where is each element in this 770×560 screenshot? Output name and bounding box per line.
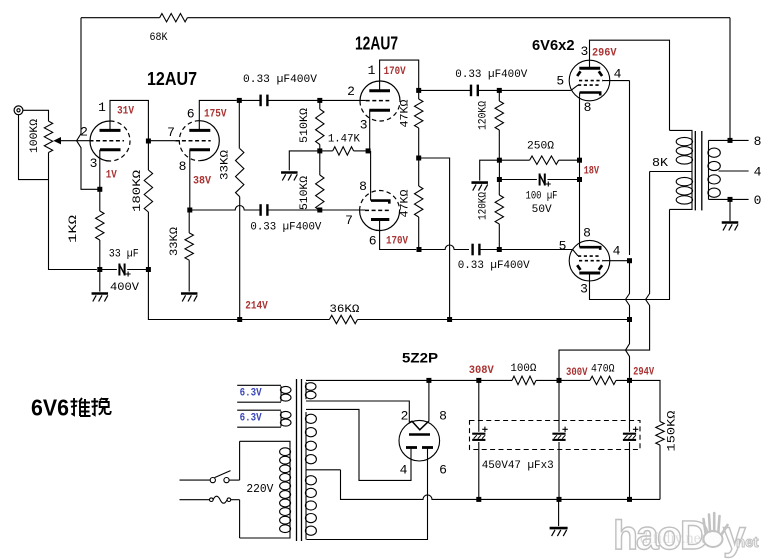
tube V1b 12AU7 envelope (half) <box>199 121 219 161</box>
wire V3 cathode down <box>579 93 581 97</box>
svg-text:4: 4 <box>754 165 762 180</box>
resistor 33K (V1b cathode) <box>188 210 190 233</box>
svg-text:8: 8 <box>583 226 591 241</box>
wire node A to V1b grid <box>148 140 175 142</box>
resistor 250ohm cathode bias <box>499 159 529 161</box>
PT HV center tap lead <box>306 469 341 471</box>
V3 screen grid (dashed) <box>579 80 603 82</box>
capacitor filter C3 450V47uF <box>623 433 636 435</box>
svg-text:470Ω: 470Ω <box>591 364 615 376</box>
svg-text:12AU7: 12AU7 <box>147 69 197 89</box>
junction 510K midpoint <box>317 148 322 153</box>
svg-text:170V: 170V <box>384 66 406 78</box>
svg-text:120KΩ: 120KΩ <box>478 192 490 220</box>
input jack J1 <box>14 106 23 115</box>
OPT primary center tap lead <box>650 171 692 173</box>
tube V5 5Z2P envelope <box>399 420 440 461</box>
V1b grid (dashed) <box>175 140 210 142</box>
tube V4 6V6 envelope <box>569 240 610 281</box>
wire to splitter upper grid <box>320 99 366 101</box>
junction node A (V1a plate / V1b grid / 180K) <box>146 139 151 144</box>
wire V2b cathode up to 1.47K junction <box>370 151 372 201</box>
resistor 1K (V1a cathode) <box>99 189 101 211</box>
resistor 150K bleeder <box>656 422 664 446</box>
wire cap3 drop <box>629 380 631 431</box>
capacitor 33uF 400V decoupling <box>100 269 117 271</box>
V2a grid (dashed) <box>366 100 390 102</box>
junction 510K lower <box>317 208 322 213</box>
tube V2a 12AU7 envelope (half) <box>360 81 400 101</box>
wire cap2 drop <box>558 380 560 431</box>
tube V1a 12AU7 envelope (half) <box>90 121 110 161</box>
junction 294V node <box>627 378 632 383</box>
PT HV secondary upper <box>305 412 307 466</box>
resistor 510K upper grid leak <box>319 100 321 109</box>
junction 300V node <box>557 378 562 383</box>
svg-text:33KΩ: 33KΩ <box>169 227 181 256</box>
ground PSU main <box>550 527 568 530</box>
wire 47K midpoint to 214V rail <box>419 158 450 320</box>
potentiometer 100K <box>44 121 52 152</box>
wire negative ground rail (hop over rectifier plate lead) <box>341 470 661 500</box>
V4 screen grid (dashed) <box>579 260 603 262</box>
junction 120K mid upper (ground/250ohm) <box>497 158 502 163</box>
svg-text:8: 8 <box>754 134 762 149</box>
junction V1b plate / 33K / coupling cap <box>237 98 242 103</box>
wire pot bottom to ground node <box>49 153 97 270</box>
V3 beam plates <box>577 71 580 76</box>
wire V2b plate node to cap D (hop over 47K feed) <box>419 245 469 249</box>
svg-text:1.47K: 1.47K <box>328 134 360 146</box>
junction V4 screen on screens line <box>627 258 632 263</box>
svg-text:12AU7: 12AU7 <box>355 34 398 54</box>
PT rectifier heater winding <box>305 382 307 399</box>
wire screens line (294V feed) with hops <box>626 81 630 378</box>
svg-text:31V: 31V <box>117 106 134 118</box>
resistor 33K (V1b plate load) <box>238 100 240 148</box>
ground under 33K <box>181 292 198 295</box>
svg-text:36KΩ: 36KΩ <box>329 304 359 316</box>
svg-text:47KΩ: 47KΩ <box>400 189 412 217</box>
svg-text:8: 8 <box>584 100 592 115</box>
OPT secondary winding <box>708 140 710 146</box>
wire V4 plate to OPT primary bottom <box>590 209 670 299</box>
wire cap1 drop <box>478 380 480 431</box>
V1b cathode <box>190 148 211 151</box>
capacitor filter C2 450V47uF <box>552 433 565 435</box>
wire V2a plate node to cap C <box>419 89 471 91</box>
V5 plate left (pin 4) <box>406 446 417 449</box>
svg-text:120KΩ: 120KΩ <box>478 101 490 130</box>
wire feedback right drop to OPT secondary 8ohm tap <box>729 18 731 141</box>
wire V1b plate up to 33K/cap node <box>199 100 237 130</box>
svg-text:8: 8 <box>439 409 447 424</box>
wire V1b plate node to cap A <box>239 99 260 101</box>
wire V5 pin6 to HV bottom <box>307 448 428 540</box>
svg-text:1: 1 <box>98 100 106 115</box>
capacitor 100uF 50V cathode bypass <box>499 179 537 181</box>
wire jack tip to pot top <box>23 110 49 121</box>
svg-text:250Ω: 250Ω <box>527 141 554 153</box>
junction 120K mid lower (100uF) <box>497 177 502 182</box>
svg-text:5: 5 <box>556 74 564 89</box>
junction cap3 negative <box>627 497 632 502</box>
svg-text:5Z2P: 5Z2P <box>402 350 438 366</box>
svg-text:net: net <box>736 534 759 551</box>
svg-text:6.3V: 6.3V <box>240 413 262 425</box>
svg-text:296V: 296V <box>592 48 617 60</box>
junction V1b cathode / 33K / lower coupling wire <box>187 208 192 213</box>
svg-text:0: 0 <box>754 193 762 208</box>
wire V3 grid entry diagonal <box>571 85 578 90</box>
wire V5 pin8 riser to 308V <box>428 380 430 421</box>
svg-text:294V: 294V <box>633 367 654 379</box>
wire V1b cathode down <box>189 150 191 210</box>
V2b grid (dashed) <box>365 209 389 211</box>
V3 plate <box>579 67 600 70</box>
svg-text:3: 3 <box>580 44 588 59</box>
svg-text:4: 4 <box>613 244 621 259</box>
junction 510K upper <box>317 98 322 103</box>
svg-text:100KΩ: 100KΩ <box>29 119 41 153</box>
svg-text:68K: 68K <box>150 32 168 44</box>
resistor 470ohm <box>590 376 616 384</box>
V5 plate right (pin 6) <box>422 446 433 449</box>
junction rectifier filament riser <box>426 378 431 383</box>
OPT primary upper winding <box>670 130 693 137</box>
svg-text:5: 5 <box>559 239 567 254</box>
svg-text:510KΩ: 510KΩ <box>299 108 311 143</box>
svg-text:8: 8 <box>179 159 187 174</box>
wire cap A to upper splitter grid <box>268 99 320 101</box>
resistor 36K <box>329 315 357 323</box>
wire shared cathode line <box>579 96 581 247</box>
resistor 120K lower <box>498 180 500 196</box>
svg-text:33KΩ: 33KΩ <box>220 150 232 180</box>
svg-text:6: 6 <box>439 463 447 478</box>
svg-text:33 µF: 33 µF <box>109 249 139 261</box>
svg-text:2: 2 <box>401 409 409 424</box>
OPT secondary tap 4 <box>719 170 749 172</box>
junction 120K lower bottom <box>497 247 502 252</box>
V2b cathode (top) <box>371 201 389 204</box>
junction rail to screens line <box>627 317 632 322</box>
svg-text:0.33 µF400V: 0.33 µF400V <box>250 222 321 234</box>
wire between 120K midpoints <box>498 160 500 179</box>
svg-text:6.3V: 6.3V <box>240 388 262 400</box>
wire 510K midpoint to ground <box>289 151 320 171</box>
pot wiper arrow <box>53 137 61 144</box>
svg-text:0.33 µF400V: 0.33 µF400V <box>458 260 530 272</box>
wire primary top to switch <box>239 441 241 480</box>
svg-text:4: 4 <box>400 463 408 478</box>
svg-text:6: 6 <box>187 107 195 122</box>
V4 plate (bottom) <box>579 272 600 275</box>
wire V5 pin4 to HV top <box>306 409 411 480</box>
svg-text:6: 6 <box>369 234 377 249</box>
V1b plate <box>189 129 210 132</box>
svg-text:1V: 1V <box>106 170 117 182</box>
V3 control grid (dashed) <box>578 84 601 86</box>
capacitor 0.33uF400V C (to 6V6 upper grid) <box>470 85 472 97</box>
junction 33uF right on 180K line <box>146 267 151 272</box>
V4 cathode (top) <box>580 247 601 250</box>
capacitor 0.33uF400V A (upper) <box>259 95 261 107</box>
wire B+ rail from rectifier <box>306 380 660 421</box>
resistor 180K (V1a plate load) <box>147 141 149 170</box>
svg-text:1KΩ: 1KΩ <box>68 214 80 243</box>
wire ground stem PSU <box>558 499 560 526</box>
svg-text:0.33 µF400V: 0.33 µF400V <box>243 74 317 86</box>
svg-text:47KΩ: 47KΩ <box>400 99 412 127</box>
V1a grid (dashed) <box>90 140 125 142</box>
wire cap D to 6V6 lower grid <box>479 249 572 251</box>
junction 47K feed on rail <box>447 317 452 322</box>
junction 120K upper top <box>497 88 502 93</box>
capacitor 0.33uF400V D (to 6V6 lower grid) <box>471 244 473 256</box>
junction cathode line / 250ohm <box>577 158 582 163</box>
resistor 510K lower grid leak <box>319 151 321 175</box>
resistor 68K <box>160 14 188 22</box>
watermark haoDIY.net <box>613 512 759 558</box>
wire feedback top rail <box>81 17 730 19</box>
svg-text:18V: 18V <box>584 166 600 178</box>
wire V1a grid to pot wiper <box>61 140 90 142</box>
V5 filament V <box>410 421 429 430</box>
OPT secondary tap 8 <box>709 139 749 141</box>
svg-text:6V6x2: 6V6x2 <box>532 37 575 54</box>
dashed box around filter caps <box>470 421 641 450</box>
junction 47K midpoint feed <box>416 156 421 161</box>
V1a cathode <box>100 148 121 151</box>
wire tap 0 to ground <box>729 199 731 221</box>
svg-text:220V: 220V <box>246 482 274 496</box>
V2b plate (bottom) <box>371 218 389 221</box>
V4 beam plates <box>577 265 580 270</box>
svg-text:7: 7 <box>345 213 353 228</box>
svg-text:150KΩ: 150KΩ <box>667 410 679 451</box>
PT 6.3V winding 1 <box>237 385 281 402</box>
V4 control grid (dashed) <box>578 255 601 257</box>
svg-text:3: 3 <box>360 118 368 133</box>
resistor 47K upper <box>418 90 420 99</box>
PT core <box>296 379 298 541</box>
junction cathode line / 100uF <box>577 177 582 182</box>
svg-text:8: 8 <box>359 179 367 194</box>
junction cap2 negative <box>557 497 562 502</box>
tube V3 6V6 envelope <box>569 60 610 101</box>
wire V3 screen to screens line <box>603 80 630 82</box>
junction splitter cathodes / 1.47K <box>366 148 371 153</box>
svg-text:450V47 µFx3: 450V47 µFx3 <box>482 460 554 472</box>
junction cap1 negative <box>476 497 481 502</box>
svg-text:4: 4 <box>614 67 622 82</box>
resistor 1.47K (splitter cathode bias) <box>320 150 333 152</box>
svg-text:8K: 8K <box>652 156 669 170</box>
wire OPT center tap to 300V node (hop at plate wire) <box>559 172 650 381</box>
wire V3 plate to OPT primary top <box>590 40 670 130</box>
wire V4 screen to screens line <box>603 260 630 262</box>
svg-text:0.33 µF400V: 0.33 µF400V <box>455 69 527 81</box>
svg-text:175V: 175V <box>204 109 227 121</box>
ground under 1K <box>92 292 109 295</box>
capacitor filter C1 450V47uF <box>472 433 485 435</box>
PT HV secondary lower <box>305 470 307 474</box>
junction cap C node <box>416 88 421 93</box>
wire cap C to 6V6 upper grid <box>478 89 571 91</box>
ground at OPT secondary <box>722 221 739 224</box>
wire primary bottom to fuse <box>239 500 241 538</box>
ground at 510K midpoint <box>281 171 298 174</box>
wire jack sleeve down <box>19 115 49 180</box>
resistor 100ohm <box>512 376 536 384</box>
svg-text:400V: 400V <box>110 282 139 294</box>
junction V1a cathode/feedback/1K <box>97 187 102 192</box>
svg-text:2: 2 <box>347 84 355 99</box>
wire V2b plate down to 47K node <box>380 220 417 250</box>
svg-text:50V: 50V <box>532 204 552 216</box>
svg-text:3: 3 <box>90 156 98 171</box>
svg-text:3: 3 <box>580 282 588 297</box>
V2a plate <box>369 89 390 92</box>
svg-text:1: 1 <box>368 63 376 78</box>
svg-text:214V: 214V <box>245 301 268 313</box>
wire to splitter lower grid <box>320 209 365 211</box>
wire V1b cathode node to cap B (hop over 33K line) <box>190 206 261 211</box>
svg-text:180KΩ: 180KΩ <box>132 170 144 212</box>
V1a plate <box>100 129 121 132</box>
PT 6.3V winding 2 <box>237 410 281 427</box>
svg-text:100Ω: 100Ω <box>510 363 536 375</box>
V2a cathode <box>369 109 390 112</box>
svg-text:100 µF: 100 µF <box>526 191 558 203</box>
wire V4 grid entry diagonal <box>573 250 578 256</box>
svg-text:7: 7 <box>167 125 175 140</box>
wire V2a plate up to 47K node <box>380 60 419 91</box>
capacitor 0.33uF400V B (lower) <box>259 204 261 216</box>
junction V2b plate node <box>417 247 422 252</box>
OPT primary lower winding <box>691 172 693 178</box>
svg-text:170V: 170V <box>386 236 408 248</box>
OPT secondary tap 0 <box>709 198 749 200</box>
tube V2b 12AU7 envelope (half) <box>360 211 400 231</box>
V3 cathode <box>580 93 601 96</box>
junction 33K plate bottom on rail <box>237 317 242 322</box>
wire midpoint to ground <box>480 160 500 180</box>
OPT core <box>694 131 696 210</box>
junction 308V node <box>476 378 481 383</box>
mains fuse <box>180 499 210 501</box>
svg-text:510KΩ: 510KΩ <box>299 176 311 210</box>
svg-text:2: 2 <box>80 125 88 140</box>
mains switch <box>180 479 211 481</box>
resistor 120K upper <box>498 90 500 101</box>
svg-text:difidiy.net: difidiy.net <box>640 530 706 547</box>
svg-text:38V: 38V <box>193 176 211 188</box>
wire V2a cathode down to 1.47K junction <box>369 110 371 151</box>
ground at 120K midpoint <box>471 181 488 184</box>
wire cap B to lower splitter grid <box>268 209 320 211</box>
resistor 47K lower <box>418 158 420 186</box>
wire V1a cathode down <box>99 150 101 190</box>
PT 220V primary winding <box>240 441 290 447</box>
svg-text:300V: 300V <box>566 367 588 379</box>
wire feedback left drop to V1a cathode (hop over grid wire) <box>77 18 98 190</box>
wire V1a plate to node A <box>110 100 148 138</box>
svg-text:6V6: 6V6 <box>31 395 69 421</box>
junction 33uF left / pot ground <box>97 267 102 272</box>
wire V5 pin2 lead from heater winding <box>306 401 409 423</box>
svg-text:308V: 308V <box>469 365 494 377</box>
V5 bar under filament <box>409 433 430 436</box>
wire 214V rail <box>148 316 629 320</box>
